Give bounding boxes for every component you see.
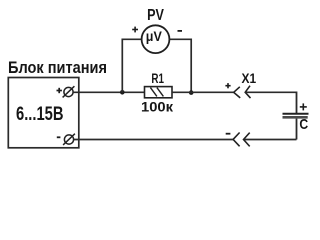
wire: left voltmeter lead (up and right to meter) — [122, 39, 142, 92]
wire: top rail from + terminal to resistor — [73, 91, 145, 93]
terminal XT- (circle with slash) — [63, 134, 75, 145]
capacitor C top plate — [283, 113, 309, 115]
capacitor C bottom plate — [283, 116, 308, 119]
svg-text:PV: PV — [147, 7, 164, 24]
power supply box U1 — [8, 78, 79, 148]
svg-text:C: C — [299, 116, 308, 133]
connector X1 bottom socket contact — [233, 133, 240, 147]
wire: bottom rail from capacitor to pin — [244, 139, 297, 141]
minus sign at box output — [57, 136, 61, 138]
op-amp.. actually voltmeter PV circle — [142, 25, 170, 53]
minus sign near X1 bottom contact — [226, 133, 231, 135]
svg-text:R1: R1 — [151, 71, 164, 86]
node A (junction dot, left voltmeter tap) — [120, 90, 125, 95]
svg-text:X1: X1 — [242, 71, 257, 86]
connector X1 top socket contact — [234, 87, 241, 98]
svg-text:μV: μV — [146, 28, 163, 44]
wire: right voltmeter lead (from meter right and down) — [169, 39, 191, 92]
svg-text:Блок питания: Блок питания — [8, 58, 107, 77]
wire: top rail from resistor to connector — [172, 91, 234, 93]
plus sign near X1 top contact — [225, 83, 230, 88]
node B (junction dot, right voltmeter tap) — [189, 90, 194, 95]
connector X1 top pin contact (arrow) — [245, 86, 250, 98]
svg-text:100к: 100к — [141, 98, 174, 114]
connector X1 bottom pin contact (arrow) — [244, 133, 250, 147]
wire: down to capacitor top plate — [296, 92, 298, 114]
plus sign of capacitor — [300, 103, 307, 110]
wire: top rail from pin to capacitor corner — [245, 91, 296, 93]
svg-text:6...15В: 6...15В — [16, 104, 64, 125]
plus sign left of meter — [132, 27, 138, 33]
wire: bottom rail from socket to - terminal — [74, 139, 234, 141]
resistor R1 power-rating marks — [150, 88, 163, 97]
terminal XT+ (circle with slash) — [63, 86, 75, 97]
resistor R1 body — [145, 87, 173, 98]
plus sign at box output — [57, 88, 62, 93]
minus sign right of meter — [178, 30, 183, 32]
wire: from capacitor bottom plate down to bottom rail — [296, 119, 298, 140]
